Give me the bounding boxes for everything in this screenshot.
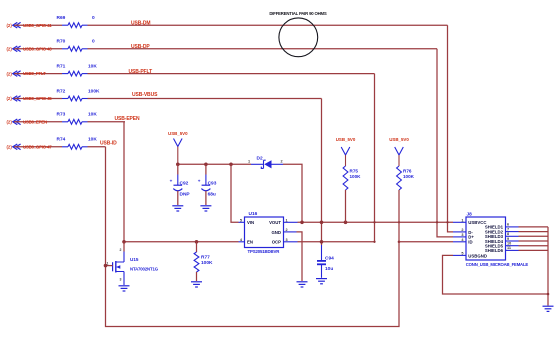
svg-text:(2): (2) xyxy=(7,47,13,52)
svg-text:J8: J8 xyxy=(467,211,473,217)
svg-text:USB_5V0: USB_5V0 xyxy=(336,137,356,142)
svg-text:(2): (2) xyxy=(7,71,13,76)
svg-text:EN: EN xyxy=(247,240,253,245)
svg-text:D2: D2 xyxy=(257,155,263,161)
svg-text:7: 7 xyxy=(507,227,509,231)
svg-text:USB_5V0: USB_5V0 xyxy=(168,131,188,136)
svg-text:+: + xyxy=(198,178,201,183)
svg-text:R73: R73 xyxy=(57,112,66,118)
svg-text:U16: U16 xyxy=(249,211,258,217)
svg-text:8: 8 xyxy=(507,232,509,236)
svg-text:R77: R77 xyxy=(201,255,210,261)
svg-text:6: 6 xyxy=(507,223,509,227)
svg-text:10: 10 xyxy=(507,242,511,246)
svg-text:R75: R75 xyxy=(350,169,359,174)
svg-text:+: + xyxy=(170,178,173,183)
svg-text:R72: R72 xyxy=(57,88,66,94)
svg-text:9: 9 xyxy=(507,237,509,241)
svg-text:USB-PFLT: USB-PFLT xyxy=(129,69,153,75)
svg-text:2: 2 xyxy=(120,248,122,252)
svg-text:USB-EPEN: USB-EPEN xyxy=(115,116,141,122)
svg-text:2: 2 xyxy=(461,228,463,232)
svg-text:C94: C94 xyxy=(325,256,334,262)
svg-text:100K: 100K xyxy=(88,88,100,94)
svg-text:GND: GND xyxy=(271,230,281,235)
svg-text:U15: U15 xyxy=(130,257,139,262)
svg-text:C93: C93 xyxy=(208,181,217,187)
svg-text:1: 1 xyxy=(286,218,288,222)
svg-text:USB0_EPEN: USB0_EPEN xyxy=(23,119,47,124)
svg-text:DNP: DNP xyxy=(180,191,191,197)
svg-text:5: 5 xyxy=(461,251,463,255)
svg-text:USB-VBUS: USB-VBUS xyxy=(132,92,158,98)
svg-text:10K: 10K xyxy=(88,137,97,143)
svg-text:1: 1 xyxy=(248,160,250,164)
svg-text:3: 3 xyxy=(120,277,122,281)
svg-text:USB0_GPIO-41: USB0_GPIO-41 xyxy=(23,23,52,28)
svg-text:68u: 68u xyxy=(208,191,216,197)
svg-text:(2): (2) xyxy=(7,120,13,125)
svg-text:0: 0 xyxy=(92,39,95,45)
svg-text:USB0_GPIO-43: USB0_GPIO-43 xyxy=(23,46,52,51)
svg-text:R69: R69 xyxy=(57,15,66,21)
svg-text:TPS2051BDBVR: TPS2051BDBVR xyxy=(248,249,281,254)
svg-text:USB0_PFLT: USB0_PFLT xyxy=(23,71,46,76)
svg-text:CONN_USB_MICROAB_FEMALE: CONN_USB_MICROAB_FEMALE xyxy=(466,262,529,267)
svg-text:VIN: VIN xyxy=(247,220,254,225)
svg-text:USBGND: USBGND xyxy=(468,253,487,258)
svg-text:2: 2 xyxy=(281,160,283,164)
svg-text:10K: 10K xyxy=(88,63,97,69)
svg-text:R74: R74 xyxy=(57,137,66,143)
svg-text:USB0_GPIO-45: USB0_GPIO-45 xyxy=(23,96,52,101)
svg-text:R71: R71 xyxy=(57,63,66,69)
svg-text:VOUT: VOUT xyxy=(269,220,281,225)
svg-text:(2): (2) xyxy=(7,96,13,101)
svg-text:USB-DP: USB-DP xyxy=(131,44,150,50)
svg-text:USB-ID: USB-ID xyxy=(100,141,117,147)
svg-text:OCP: OCP xyxy=(272,240,281,245)
svg-text:3: 3 xyxy=(461,233,463,237)
svg-text:USBVCC: USBVCC xyxy=(468,220,486,225)
svg-text:C92: C92 xyxy=(180,181,189,187)
svg-text:(2): (2) xyxy=(7,23,13,28)
svg-text:(2): (2) xyxy=(7,145,13,150)
svg-text:10u: 10u xyxy=(325,266,333,272)
svg-text:DIFFERENTIAL PAIR 90 OHMS: DIFFERENTIAL PAIR 90 OHMS xyxy=(269,11,326,16)
svg-text:10K: 10K xyxy=(88,112,97,118)
svg-text:100K: 100K xyxy=(350,174,362,179)
svg-text:1: 1 xyxy=(461,218,463,222)
svg-text:USB0_GPIO-47: USB0_GPIO-47 xyxy=(23,144,52,149)
svg-text:R70: R70 xyxy=(57,39,66,45)
svg-text:R76: R76 xyxy=(403,169,412,174)
svg-text:ID: ID xyxy=(468,240,472,245)
svg-text:11: 11 xyxy=(507,246,511,250)
svg-text:USB-DM: USB-DM xyxy=(131,20,150,26)
svg-text:USB_5V0: USB_5V0 xyxy=(389,137,409,142)
svg-text:0: 0 xyxy=(92,15,95,21)
svg-text:100K: 100K xyxy=(403,174,415,179)
svg-text:NTA7002NT1G: NTA7002NT1G xyxy=(130,267,159,272)
svg-text:2: 2 xyxy=(286,228,288,232)
svg-text:100K: 100K xyxy=(201,260,213,266)
svg-text:SHIELD6: SHIELD6 xyxy=(485,248,504,253)
svg-text:3: 3 xyxy=(286,238,288,242)
svg-text:5: 5 xyxy=(240,218,242,222)
